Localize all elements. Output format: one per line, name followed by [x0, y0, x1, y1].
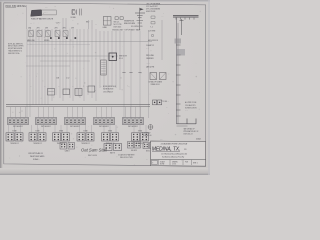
terminal block TB6 [143, 143, 155, 153]
terminal block row TB1 [8, 107, 144, 128]
pipe run P1 [173, 16, 199, 124]
svg-text:PIPE LINE: PIPE LINE [146, 55, 155, 57]
relay row labels [28, 28, 75, 30]
svg-text:GROUND LINE ·· TOP OF MAST ··: GROUND LINE ·· TOP OF MAST ·· BASE [112, 28, 141, 31]
bus wire H1 [27, 41, 152, 43]
svg-text:1 IN GALV STD: 1 IN GALV STD [185, 104, 196, 107]
svg-text:SCALE 1-50: SCALE 1-50 [143, 134, 152, 137]
net labels mid [56, 78, 69, 80]
wire [63, 18, 92, 29]
pipe labels [166, 101, 169, 115]
svg-text:TERM BD 12: TERM BD 12 [10, 143, 19, 145]
terminal block TB5 [128, 142, 141, 152]
svg-text:CARRIER: CARRIER [146, 57, 154, 60]
svg-text:NO 4 DWG 1520: NO 4 DWG 1520 [131, 26, 143, 28]
svg-text:ALL PIPE TO BE: ALL PIPE TO BE [185, 101, 197, 104]
svg-text:CIRCUIT PLAN OF: CIRCUIT PLAN OF [28, 152, 44, 155]
compass symbol [142, 125, 153, 138]
paper speckle texture [5, 6, 201, 166]
handwritten note [81, 148, 108, 157]
title block [151, 141, 206, 166]
junction box J1 [103, 17, 112, 29]
fuse box F1 [109, 53, 117, 61]
svg-text:C 12: C 12 [66, 78, 69, 80]
svg-text:BOX 2: BOX 2 [146, 150, 150, 152]
svg-text:12 O Mainland Sta and Blueprin: 12 O Mainland Sta and Blueprints 410 [161, 152, 187, 155]
signal mast SM1 [135, 8, 145, 30]
terminal box T4 [88, 86, 95, 92]
svg-text:BRACKET ARM: BRACKET ARM [124, 22, 136, 25]
note top-left [6, 6, 27, 8]
border frame [4, 3, 206, 166]
label above case [45, 7, 48, 9]
bus wires vertical [27, 29, 149, 118]
svg-text:24 DIAGRAM OF WIRE CIRCUITS AT: 24 DIAGRAM OF WIRE CIRCUITS AT [161, 143, 189, 146]
terminal block row TB2 [6, 125, 149, 145]
svg-text:TERM BD 12: TERM BD 12 [81, 143, 90, 145]
bar end marks [162, 14, 165, 19]
trunking lines [6, 105, 150, 107]
svg-text:GUY WIRE: GUY WIRE [148, 31, 155, 33]
switch symbol S1 [71, 9, 82, 19]
bus wire H3 [40, 60, 90, 62]
battery box B1 [31, 10, 42, 16]
svg-text:REV 2-14-36: REV 2-14-36 [88, 155, 97, 157]
svg-text:SIDING: SIDING [44, 40, 50, 42]
svg-text:TERM BD 12: TERM BD 12 [33, 143, 42, 145]
svg-text:··· ··: ··· ·· [146, 48, 149, 50]
svg-text:JAW & PIN: JAW & PIN [146, 66, 155, 69]
caption bottom-left [28, 152, 45, 161]
hardware symbols [148, 16, 159, 42]
svg-text:NO 4: NO 4 [119, 58, 123, 60]
svg-text:TO SIG: TO SIG [162, 101, 168, 103]
svg-text:Oat Sam Stall: Oat Sam Stall [81, 148, 108, 153]
crank boxes [149, 73, 167, 87]
svg-text:WEST END YARD: WEST END YARD [30, 155, 45, 158]
svg-text:TO BE RUN IN: TO BE RUN IN [103, 89, 114, 91]
mast labels [112, 19, 143, 31]
svg-text:REL ··: REL ·· [86, 22, 91, 24]
svg-text:1 IN CONDUIT: 1 IN CONDUIT [103, 91, 113, 93]
bus wire H1b [27, 43, 90, 45]
lamp symbols [114, 17, 124, 29]
svg-text:DWG 216 - B: DWG 216 - B [184, 134, 194, 136]
wire [161, 20, 163, 60]
relay row boxes [29, 31, 69, 37]
svg-text:San Antonio & Aransas Pass Ry: San Antonio & Aransas Pass Ry [162, 156, 184, 159]
svg-text:BE NO 9 B&S COPPER: BE NO 9 B&S COPPER [8, 46, 24, 48]
labels above trunking [30, 87, 130, 89]
svg-text:·· 2-TR ··: ·· 2-TR ·· [55, 23, 61, 25]
labels below relay row [29, 39, 65, 41]
svg-text:T - 2: T - 2 [150, 27, 153, 29]
terminal box T3 [75, 89, 82, 96]
node A [162, 101, 168, 103]
relay case K1 [42, 10, 57, 15]
pipe foundation [177, 119, 197, 127]
wire [26, 5, 28, 29]
svg-text:MAIN LINE: MAIN LINE [27, 39, 36, 42]
terminal block TB3 [104, 144, 122, 155]
title block header note [160, 138, 201, 141]
bus wire H2 [26, 55, 118, 57]
contact squares [50, 37, 76, 39]
svg-text:SEMAPHORE: SEMAPHORE [124, 19, 135, 22]
upper band labels [30, 20, 98, 26]
caption under case [31, 17, 54, 20]
svg-text:REL BOX: REL BOX [131, 150, 137, 152]
svg-text:DETAIL: DETAIL [71, 16, 76, 19]
general notes [8, 42, 24, 55]
svg-text:CLAMP 12: CLAMP 12 [146, 44, 154, 47]
net labels mid2 [103, 86, 116, 93]
svg-text:SHT 1: SHT 1 [193, 163, 198, 165]
svg-text:▪ ··· ·· ·: ▪ ··· ·· · [43, 12, 48, 14]
terminal stub TB0 [153, 100, 162, 105]
label caption [27, 39, 50, 42]
svg-text:FILE: FILE [185, 161, 188, 163]
svg-text:NONE: NONE [160, 164, 164, 166]
svg-text:SEE NOTE: SEE NOTE [119, 56, 128, 58]
terminal box T2 [63, 89, 70, 95]
terminal block TB4 [60, 143, 75, 153]
detail notes right [146, 44, 155, 69]
pipe clamps [175, 39, 186, 117]
svg-text:· ·· ···: · ·· ··· [146, 64, 150, 66]
notes bottom centre-right [118, 154, 149, 161]
svg-text:STAND NO 8: STAND NO 8 [151, 83, 160, 86]
foundation notes [184, 127, 199, 135]
notes right margin [185, 101, 198, 112]
notes right-top [146, 2, 161, 13]
svg-text:SCALE ··: SCALE ·· [33, 158, 40, 161]
svg-text:DWG 1516: DWG 1516 [114, 26, 122, 28]
bus wire H4 [26, 65, 70, 67]
terminal box T1 [48, 89, 55, 96]
svg-text:4 BOLTS 5/8: 4 BOLTS 5/8 [146, 11, 155, 13]
svg-text:FOUNDATION NO 12: FOUNDATION NO 12 [184, 130, 199, 133]
svg-text:PLAN OF BATTERY CHUTE: PLAN OF BATTERY CHUTE [31, 17, 54, 20]
label F1 [119, 56, 128, 61]
resistor R1 [101, 60, 107, 75]
crank ticks [122, 72, 141, 74]
svg-text:C.H.S.: C.H.S. [172, 164, 177, 166]
svg-text:DETAIL OF CRANK: DETAIL OF CRANK [149, 81, 163, 84]
